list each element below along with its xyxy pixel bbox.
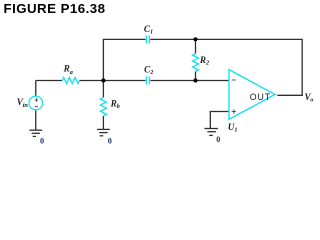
svg-text:1: 1 xyxy=(150,29,153,36)
svg-text:0: 0 xyxy=(40,137,44,146)
svg-text:2: 2 xyxy=(149,69,153,76)
svg-text:1: 1 xyxy=(234,127,237,134)
svg-text:2: 2 xyxy=(205,59,209,66)
svg-text:0: 0 xyxy=(108,136,112,145)
svg-text:R: R xyxy=(63,64,70,74)
svg-text:b: b xyxy=(117,103,120,110)
svg-text:0: 0 xyxy=(216,135,220,144)
svg-text:a: a xyxy=(70,69,73,76)
svg-text:OUT: OUT xyxy=(250,92,271,102)
svg-text:in: in xyxy=(23,102,29,109)
svg-text:R: R xyxy=(199,55,206,65)
svg-text:R: R xyxy=(110,99,117,109)
svg-text:o: o xyxy=(310,97,313,104)
svg-text:FIGURE P16.38: FIGURE P16.38 xyxy=(4,1,106,16)
